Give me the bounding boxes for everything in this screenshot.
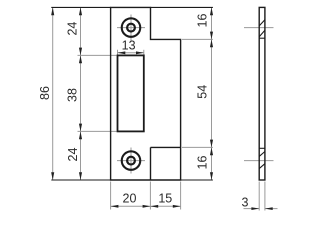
svg-text:16: 16: [195, 156, 209, 170]
svg-text:16: 16: [196, 14, 210, 28]
svg-text:3: 3: [242, 195, 249, 209]
svg-text:15: 15: [158, 191, 172, 205]
svg-text:24: 24: [66, 148, 80, 162]
svg-text:86: 86: [38, 86, 52, 100]
svg-text:13: 13: [122, 39, 136, 53]
svg-text:54: 54: [195, 85, 209, 99]
svg-text:38: 38: [65, 88, 79, 102]
svg-text:20: 20: [123, 191, 137, 205]
svg-text:24: 24: [65, 22, 79, 36]
